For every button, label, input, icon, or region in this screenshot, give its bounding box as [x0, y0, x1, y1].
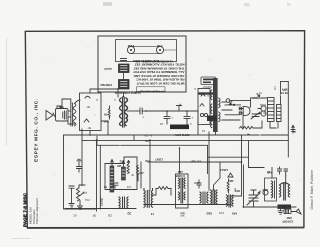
grid resistors right [227, 179, 229, 193]
wire choke top to legend area [123, 92, 125, 97]
chassis stub [177, 106, 182, 112]
svg-text:2M: 2M [117, 164, 121, 168]
vertical bus left [82, 140, 141, 211]
coil slug dark bar [278, 205, 292, 209]
svg-text:A: A [96, 98, 98, 102]
rail jog [82, 111, 198, 140]
vertical feed to osc [233, 135, 242, 196]
battery symbol +F [291, 125, 295, 133]
speaker SP [46, 111, 53, 121]
cap above volume [77, 159, 82, 172]
plate resistor R-b [122, 161, 126, 180]
svg-text:6A8: 6A8 [232, 212, 237, 216]
IF transformer T2 (shielded) [176, 174, 189, 208]
loop antenna L1 [280, 183, 290, 200]
left enclosure box [64, 135, 97, 209]
svg-text:12SA7: 12SA7 [220, 168, 228, 172]
svg-text:603B: 603B [260, 103, 266, 106]
svg-text:18: 18 [201, 129, 205, 133]
electrolytic block label [170, 125, 189, 130]
svg-text:CB: CB [108, 214, 112, 218]
arrow marker [257, 94, 260, 97]
svg-text:47K: 47K [145, 159, 150, 163]
svg-text:3P: 3P [92, 214, 96, 218]
rectifier tube V5 35Z5 [198, 89, 210, 125]
pointer track [119, 64, 130, 73]
ant terminal box [284, 209, 291, 214]
output transformer T1 [68, 100, 80, 126]
legend box (dial cord and alignment notes inset) [98, 36, 186, 92]
coupling capacitor C7 [137, 108, 146, 119]
svg-text:CUTOFF: CUTOFF [282, 220, 293, 224]
osc section coil assembly [263, 178, 277, 201]
filter cap C25 [184, 111, 192, 126]
second ballast section [277, 105, 282, 122]
screen rail [97, 145, 208, 173]
B+ bus rail A [64, 134, 242, 136]
svg-text:ALL TRIMMERS TO PEAK OUTPUT: ALL TRIMMERS TO PEAK OUTPUT [133, 70, 185, 74]
det tube enclosure [105, 157, 137, 190]
wire screen to IFT [179, 148, 181, 174]
svg-text:60 CY: 60 CY [280, 91, 287, 95]
osc triangle mark [228, 173, 233, 177]
cap pair near +W [278, 167, 288, 175]
svg-text:Gibson F. Maier, Publisher: Gibson F. Maier, Publisher [310, 169, 314, 209]
svg-text:Trimmer alignment: Trimmer alignment [35, 198, 39, 224]
oscillator coil L2 [227, 195, 234, 207]
AC line plug P1 [239, 106, 250, 115]
svg-text:117V: 117V [282, 88, 288, 92]
wire IFT to grid [149, 140, 151, 190]
svg-text:ESPEY MFG. CO., INC.: ESPEY MFG. CO., INC. [33, 98, 39, 162]
grid resistor 47K [158, 187, 168, 190]
output tube V4 50L6 [80, 93, 102, 131]
svg-text:VOL: VOL [84, 198, 90, 202]
svg-text:F: F [295, 130, 297, 134]
secondary winding to plug [222, 102, 240, 120]
IF amp tube V2 12SK7 windings [200, 192, 208, 204]
svg-text:117: 117 [273, 85, 277, 90]
svg-text:VC: VC [73, 214, 77, 218]
plate resistor R-a [110, 160, 114, 193]
svg-text:S&D: S&D [206, 212, 212, 216]
tuning gang C1 [247, 190, 260, 207]
cap C2nd [197, 180, 201, 188]
wire tube bottom to rail [89, 131, 91, 136]
svg-text:16 MWB: 16 MWB [175, 174, 185, 177]
svg-text:RE-ALIGN ANT TRIM AT 1400 KC: RE-ALIGN ANT TRIM AT 1400 KC [136, 78, 185, 82]
pilot lamp I1 [261, 106, 266, 111]
svg-text:24: 24 [159, 122, 163, 126]
svg-text:POINTER: POINTER [100, 83, 112, 87]
paper speckle noise [34, 46, 301, 220]
svg-text:5P: 5P [86, 105, 90, 109]
ballast resistor R-line [268, 98, 275, 122]
dial cord pulley A [127, 46, 134, 53]
svg-text:4MA: 4MA [252, 96, 258, 100]
svg-text:4 JB: 4 JB [157, 44, 163, 48]
bottom ground bus [65, 208, 136, 210]
svg-text:1ST DET: 1ST DET [190, 160, 201, 164]
svg-text:ALNICO V SPEAKER: ALNICO V SPEAKER [115, 91, 141, 95]
svg-text:OSC: OSC [262, 188, 268, 192]
dial cord pulley B [156, 46, 163, 53]
svg-text:6H: 6H [104, 113, 107, 117]
svg-text:2ND: 2ND [194, 181, 199, 185]
svg-text:ALIGNMENT OF MODEL 510: ALIGNMENT OF MODEL 510 [135, 60, 173, 64]
wire caps bus [146, 110, 198, 112]
filter unit box above rectifier [201, 77, 216, 85]
wire plug to ballast [225, 98, 267, 115]
line resistor R40 [240, 126, 254, 129]
svg-text:22K: 22K [229, 179, 234, 182]
B+ bus rail B [82, 139, 288, 141]
resistor R12 [127, 161, 130, 174]
wires antenna top [285, 175, 287, 184]
svg-text:AL/AC: AL/AC [104, 67, 112, 71]
IF/power transformer core (dark band) [211, 78, 221, 135]
svg-text:THE GANG AT MAXIMUM AND SET: THE GANG AT MAXIMUM AND SET [133, 66, 184, 70]
long B+ wire down right side [287, 82, 289, 157]
svg-text:12SK7: 12SK7 [155, 158, 163, 162]
svg-text:3Q: 3Q [128, 212, 131, 216]
svg-text:ADJ OSC PADDER AT 600 KC AND: ADJ OSC PADDER AT 600 KC AND [133, 74, 185, 78]
wire tube plate to transformer [90, 89, 118, 97]
switch contacts on volume control line [225, 104, 241, 106]
extra component value labels [104, 116, 268, 216]
power transformer T5 (filter choke) [114, 97, 128, 127]
svg-text:40: 40 [246, 133, 250, 137]
svg-text:2 BW: 2 BW [127, 44, 134, 48]
svg-text:5P: 5P [87, 126, 91, 130]
bypass caps in box [112, 183, 118, 188]
wire transformer secondary to voice coil [62, 99, 71, 109]
dial cord diagram frame [116, 40, 177, 62]
svg-text:PAGE 7-8 MISC: PAGE 7-8 MISC [23, 192, 28, 227]
converter tube V1 12SA7 windings [211, 190, 218, 204]
volume control cluster [69, 185, 90, 209]
coil L4 [119, 197, 128, 209]
svg-text:ANT.: ANT. [286, 216, 292, 220]
wires right cluster [243, 115, 278, 128]
voice coil VC [56, 109, 69, 122]
svg-text:12SQ7: 12SQ7 [100, 197, 104, 206]
svg-text:1M: 1M [83, 191, 87, 195]
line trimmer cap [251, 112, 260, 119]
svg-text:J60: J60 [180, 214, 185, 218]
svg-text:VHF: VHF [103, 120, 109, 124]
svg-text:J&B: J&B [178, 170, 183, 174]
ground at ant [278, 207, 283, 214]
svg-text:470: 470 [126, 185, 131, 188]
svg-text:A: A [194, 87, 196, 91]
resistor R13 [137, 166, 139, 178]
border frame of schematic page [25, 31, 304, 228]
filter cap C24 [159, 111, 170, 126]
antenna symbol [291, 209, 301, 214]
AVC rail [148, 161, 242, 163]
resistor R6 with labels 6H VHF [108, 106, 110, 119]
wire converter up [208, 132, 210, 190]
wire choke to filter caps [127, 110, 137, 112]
misc top smudges [103, 2, 112, 6]
svg-text:OSC: OSC [234, 189, 240, 193]
right feed rail [208, 140, 265, 167]
svg-text:B+ 90V: B+ 90V [144, 134, 152, 137]
alignment notes text [133, 60, 185, 94]
svg-text:WITH SIG GEN AT LOW OUTPUT: WITH SIG GEN AT LOW OUTPUT [136, 82, 184, 86]
IF transformer T3 [144, 189, 153, 208]
svg-text:+VR: +VR [139, 171, 144, 175]
svg-text:35Z5GT: 35Z5GT [202, 85, 212, 89]
svg-text:25Z: 25Z [119, 160, 124, 164]
dark junction blob [207, 116, 217, 122]
svg-text:LVS: LVS [219, 211, 224, 215]
